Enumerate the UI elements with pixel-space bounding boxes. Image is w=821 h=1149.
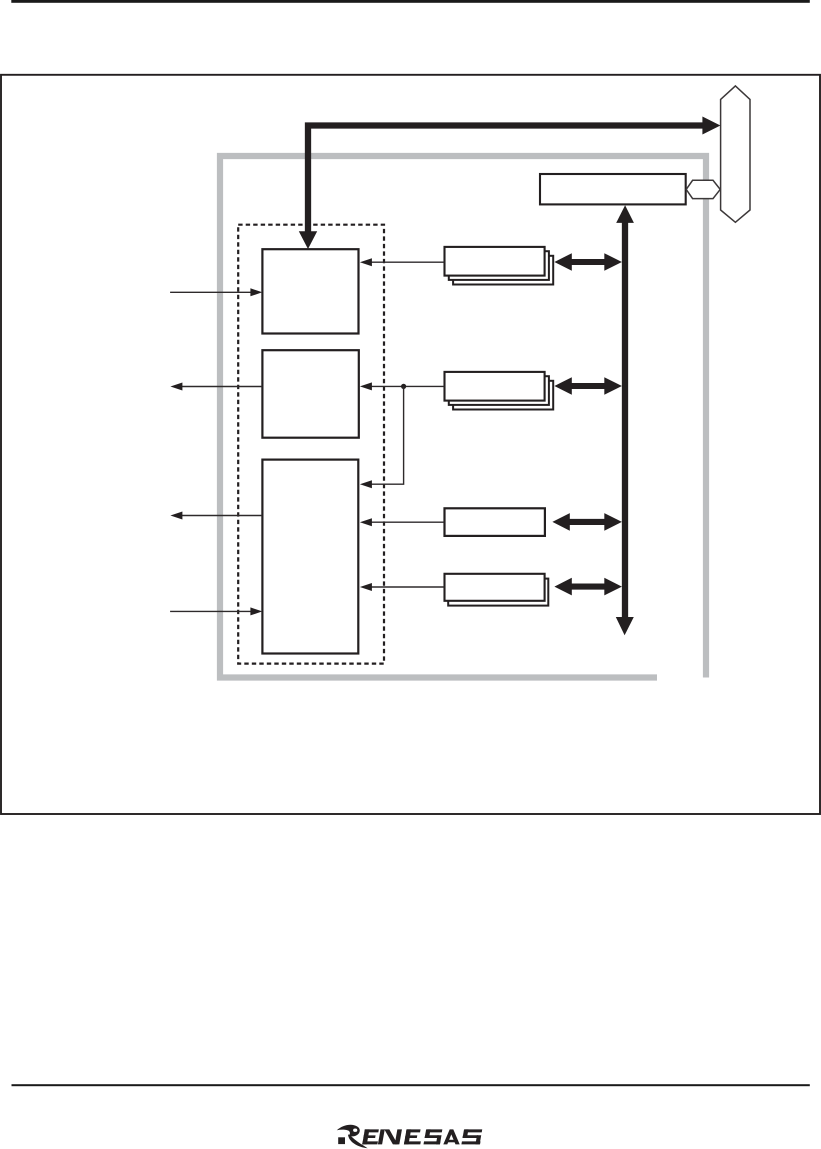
- thin wire: stack3 to box3: [360, 583, 445, 591]
- thick arrow: top L-shaped (down into box1, right into bus connector): [308, 126, 703, 232]
- bus connector polygon (right, elongated hexagon): [721, 86, 750, 222]
- logo letter A: [443, 1129, 459, 1144]
- thin wire: stack1 to box1: [360, 258, 445, 266]
- input arrow into box1 (left): [170, 288, 262, 296]
- small hexagon connector: [686, 180, 720, 198]
- arrowhead down into box1: [299, 231, 317, 249]
- thick double arrow row1: [554, 253, 622, 271]
- junction node: [401, 384, 406, 389]
- logo letter S2: [461, 1129, 482, 1144]
- header rule: [11, 0, 810, 3]
- logo square dot: [338, 1137, 345, 1144]
- dashed block boundary: [238, 225, 384, 664]
- thick double arrow row4: [554, 578, 622, 596]
- stacked registers 2 (3 layers): [445, 372, 554, 410]
- single register box (row 3): [445, 508, 545, 536]
- box1 (top block): [262, 249, 358, 333]
- logo R swoosh and bowl: [337, 1125, 360, 1137]
- logo R tail: [348, 1135, 368, 1149]
- stacked registers 3 (2 layers, row 4): [445, 574, 549, 606]
- module boundary (gray frame with bottom-right gap): [220, 156, 706, 678]
- input arrow into box3 (left): [170, 607, 262, 615]
- output arrow from box2 (left): [170, 383, 262, 391]
- thick double arrow row3: [552, 513, 622, 531]
- logo letter E2: [404, 1129, 423, 1144]
- Renesas logo: [337, 1125, 483, 1149]
- arrowhead right into bus connector: [702, 117, 720, 135]
- register box (top right): [540, 174, 686, 204]
- footer rule: [12, 1084, 810, 1086]
- thin wire: stack2 to box2 with junction: [360, 382, 445, 390]
- logo letter N: [378, 1129, 402, 1144]
- wire elbow: junction down into box3: [360, 386, 404, 488]
- vertical bus double arrow: [622, 221, 628, 619]
- output arrow from box3 (left): [170, 512, 262, 520]
- bus arrowhead down: [616, 617, 634, 635]
- thick double arrow row2: [554, 377, 622, 395]
- stacked registers 1 (3 layers, top right): [445, 247, 554, 285]
- box3 (tall bottom block): [262, 460, 358, 654]
- figure border frame: [1, 75, 820, 814]
- thin wire: single register to box3: [360, 518, 445, 526]
- box2 (middle block): [262, 350, 358, 438]
- logo letter E1: [362, 1129, 380, 1144]
- bus arrowhead up: [616, 205, 634, 223]
- logo letter S1: [424, 1129, 443, 1144]
